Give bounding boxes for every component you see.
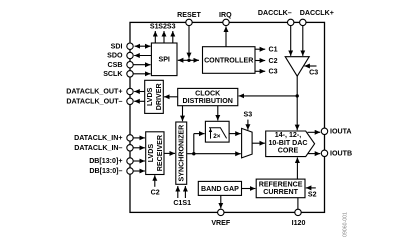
svg-text:DISTRIBUTION: DISTRIBUTION [182,97,232,105]
svg-text:RECEIVER: RECEIVER [156,135,164,171]
svg-text:IOUTA: IOUTA [330,128,352,136]
svg-text:DB[13:0]–: DB[13:0]– [89,167,122,175]
svg-text:DACCLK+: DACCLK+ [300,9,334,17]
svg-text:CONTROLLER: CONTROLLER [204,56,253,64]
svg-text:RESET: RESET [177,11,201,19]
svg-text:2×: 2× [213,133,221,140]
svg-text:VREF: VREF [211,219,231,227]
svg-text:C1S1: C1S1 [173,199,191,207]
svg-text:IRQ: IRQ [219,11,232,19]
svg-text:S2: S2 [158,23,167,31]
svg-text:C3: C3 [269,68,278,76]
svg-text:C2: C2 [151,189,160,197]
svg-text:DACCLK–: DACCLK– [258,9,292,17]
svg-text:SPI: SPI [158,56,169,64]
svg-text:CORE: CORE [278,146,299,154]
svg-text:I120: I120 [292,219,306,227]
svg-text:CURRENT: CURRENT [263,188,298,196]
svg-text:SCLK: SCLK [103,70,123,78]
svg-text:DRIVER: DRIVER [155,83,163,110]
svg-text:LVDS: LVDS [147,144,155,163]
svg-text:C1: C1 [269,46,278,54]
svg-text:DATACLK_OUT–: DATACLK_OUT– [66,98,122,106]
svg-text:C3: C3 [309,68,318,76]
svg-text:S3: S3 [167,23,176,31]
svg-text:DB[13:0]+: DB[13:0]+ [89,157,122,165]
svg-text:S2: S2 [308,191,317,199]
svg-text:DATACLK_IN+: DATACLK_IN+ [74,134,122,142]
svg-text:SDI: SDI [111,42,123,50]
svg-text:C2: C2 [269,57,278,65]
svg-text:LVDS: LVDS [146,87,154,106]
svg-text:SDO: SDO [107,52,123,60]
svg-text:S3: S3 [244,110,253,118]
svg-text:IOUTB: IOUTB [330,150,352,158]
svg-text:CSB: CSB [108,61,123,69]
svg-text:09060-001: 09060-001 [343,212,349,237]
svg-text:SYNCHRONIZER: SYNCHRONIZER [178,125,186,182]
svg-text:DATACLK_IN–: DATACLK_IN– [74,144,122,152]
svg-text:DATACLK_OUT+: DATACLK_OUT+ [66,88,122,96]
svg-text:BAND GAP: BAND GAP [201,185,239,193]
